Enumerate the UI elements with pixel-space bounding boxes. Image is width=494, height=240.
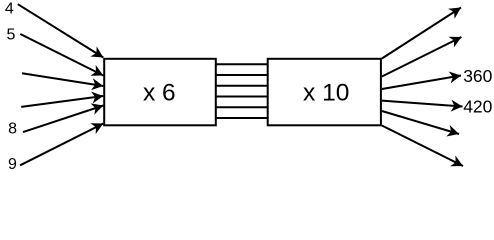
output arrow A: [382, 8, 461, 59]
connector line 5: [215, 106, 269, 108]
svg-text:x 6: x 6: [143, 79, 176, 106]
svg-text:x 10: x 10: [303, 79, 349, 106]
input arrow from 5: [20, 34, 103, 76]
svg-text:8: 8: [8, 121, 17, 138]
output arrow to 360: [382, 76, 461, 90]
connector line 3: [215, 85, 269, 87]
svg-text:4: 4: [5, 0, 14, 17]
input arrow 4: [21, 96, 103, 107]
input arrow from 9: [20, 124, 103, 166]
connector line 6: [215, 117, 269, 119]
connector line 4: [215, 96, 269, 98]
output arrow F: [382, 126, 463, 167]
svg-text:420: 420: [463, 97, 492, 117]
svg-text:9: 9: [8, 156, 17, 173]
svg-text:360: 360: [463, 66, 492, 86]
connector line 1: [215, 63, 269, 65]
input arrow from 8: [23, 106, 103, 133]
svg-text:5: 5: [7, 27, 16, 44]
output arrow B: [382, 37, 462, 77]
input arrow 3: [22, 73, 103, 86]
input arrow from 4: [18, 4, 104, 57]
output arrow to 420: [382, 101, 463, 107]
machine box x6: [104, 59, 216, 126]
machine box x10: [268, 59, 381, 126]
connector line 2: [215, 74, 269, 76]
output arrow E: [382, 111, 459, 134]
